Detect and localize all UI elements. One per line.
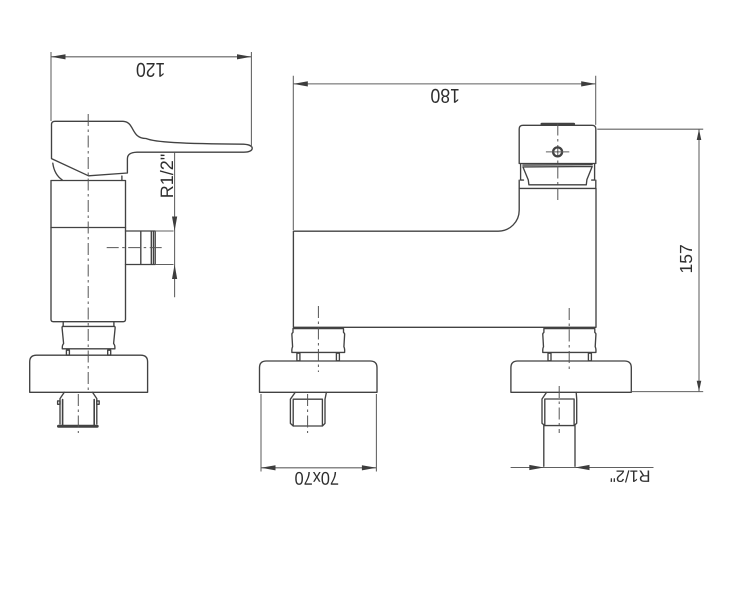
dim 180 extension lines: [293, 76, 595, 230]
svg-text:70x70: 70x70: [295, 468, 339, 489]
dim R1/2 left line: [155, 153, 174, 298]
body column + spout outline: [293, 188, 596, 327]
dim R1/2 bottom line: [511, 467, 654, 469]
handle cap (front view): [519, 125, 596, 163]
centerline right leg: [568, 308, 570, 372]
lever dome arc: [53, 163, 62, 180]
centerline left leg: [317, 306, 319, 372]
right leg flange: [511, 361, 631, 392]
dim 120 extension lines: [51, 52, 251, 147]
collar feet: [66, 350, 110, 355]
right collar feet: [548, 353, 591, 361]
side outlet R1/2: [126, 231, 156, 265]
arrow 157 bottom: [697, 381, 702, 392]
label R1/2 left: [157, 154, 177, 198]
handle skirt tick: [121, 176, 123, 180]
tail inner walls: [63, 400, 95, 426]
right leg hex nut: [542, 392, 577, 425]
screw on handle cap: [546, 147, 569, 156]
svg-text:180: 180: [431, 84, 460, 106]
lever blade end-on tab: [542, 123, 574, 126]
left leg collar: [292, 329, 345, 353]
left leg hex nut: [290, 392, 326, 426]
dim 120 line: [51, 56, 251, 58]
dim 157 line: [698, 129, 700, 391]
right leg collar: [543, 329, 596, 353]
dim 157 witness lines: [597, 129, 703, 391]
escutcheon skirt: [523, 165, 592, 185]
label 120: [136, 58, 165, 80]
body (side view): [51, 181, 126, 322]
dim 180 line: [293, 83, 595, 85]
centerline handle front: [557, 124, 559, 202]
threaded tail (side view): [60, 392, 97, 424]
svg-text:R1/2": R1/2": [157, 154, 177, 198]
escutcheon strips: [521, 164, 595, 181]
dim 70x70 line: [261, 467, 376, 469]
svg-text:157: 157: [676, 244, 696, 273]
centerline left view tail: [77, 394, 79, 433]
mounting collar (side view): [62, 322, 115, 349]
arrow R1/2 left up: [172, 265, 177, 280]
label 70x70: [295, 468, 339, 489]
arrow 70x70 left: [261, 465, 276, 470]
arrow R1/2 left down: [172, 217, 177, 232]
centerline left view body: [87, 114, 89, 392]
base flange (side view): [30, 355, 148, 392]
arrow 70x70 right: [362, 465, 377, 470]
arrow 120 left: [51, 54, 66, 59]
arrow R1/2 bottom toward right edge: [575, 465, 590, 470]
centerline left nut: [307, 394, 309, 433]
tail bottom thick: [59, 425, 98, 428]
threaded pipe R1/2: [544, 426, 575, 467]
arrow R1/2 bottom toward left edge: [529, 465, 544, 470]
dim 70x70 extension lines: [261, 394, 376, 472]
centerline right pipe: [558, 386, 560, 433]
label 157: [676, 244, 696, 273]
svg-text:120: 120: [136, 58, 165, 80]
centerline outlet axis: [107, 247, 163, 249]
arrow 180 left: [293, 81, 308, 86]
tail tabs: [58, 401, 100, 404]
arrow 180 right: [581, 81, 596, 86]
body joint line: [51, 227, 126, 229]
arrow 120 right: [237, 54, 251, 59]
svg-text:R1/2": R1/2": [610, 467, 651, 485]
label R1/2 bottom: [610, 467, 651, 485]
body top edge: [519, 180, 596, 188]
left collar feet: [297, 353, 340, 361]
left leg flange: [260, 361, 378, 392]
arrow 157 top: [697, 129, 702, 140]
lever handle (side view): [52, 121, 253, 176]
label 180: [431, 84, 460, 106]
